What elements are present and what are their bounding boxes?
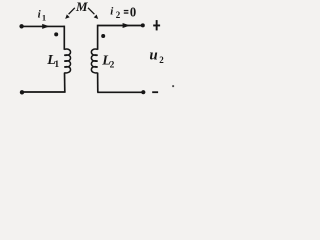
wire: right branch vertical, below coil	[97, 73, 99, 93]
current arrow i1	[42, 24, 49, 29]
svg-text:2: 2	[116, 10, 121, 20]
minus sign (u2 negative terminal)	[152, 91, 158, 93]
svg-text:0: 0	[130, 6, 136, 21]
inductor L1 coil	[64, 49, 70, 73]
svg-text:M: M	[75, 0, 88, 14]
svg-text:1: 1	[54, 60, 59, 70]
svg-text:2: 2	[159, 55, 164, 65]
equals sign of i2 = 0	[124, 10, 129, 14]
svg-text:1: 1	[42, 13, 46, 23]
terminal dot: right port, top	[141, 23, 145, 27]
polarity dot of L2	[101, 34, 105, 38]
wire: left port bottom lead	[22, 91, 66, 93]
mutual coupling arrow, right	[88, 8, 98, 19]
wire: left branch vertical, below coil	[64, 73, 66, 92]
stray ink speck (scan artifact)	[172, 85, 174, 87]
wire: right port bottom lead	[97, 91, 143, 93]
wire: right branch vertical, above coil	[97, 25, 99, 50]
terminal dot: left port, top	[19, 24, 23, 28]
polarity dot of L1	[54, 32, 58, 36]
wire: left branch vertical, above coil	[63, 26, 65, 50]
svg-text:i: i	[110, 6, 114, 18]
inductor L2 coil	[91, 49, 97, 73]
plus sign (u2 positive terminal)	[153, 20, 160, 30]
svg-text:u: u	[149, 48, 157, 64]
wire: right port top lead	[98, 25, 143, 27]
wire: left port top lead	[22, 25, 65, 27]
terminal dot: right port, bottom	[141, 90, 145, 94]
current arrow i2	[123, 23, 130, 28]
svg-text:2: 2	[110, 60, 115, 70]
terminal dot: left port, bottom	[20, 90, 24, 94]
mutual coupling arrow, left	[65, 8, 75, 19]
